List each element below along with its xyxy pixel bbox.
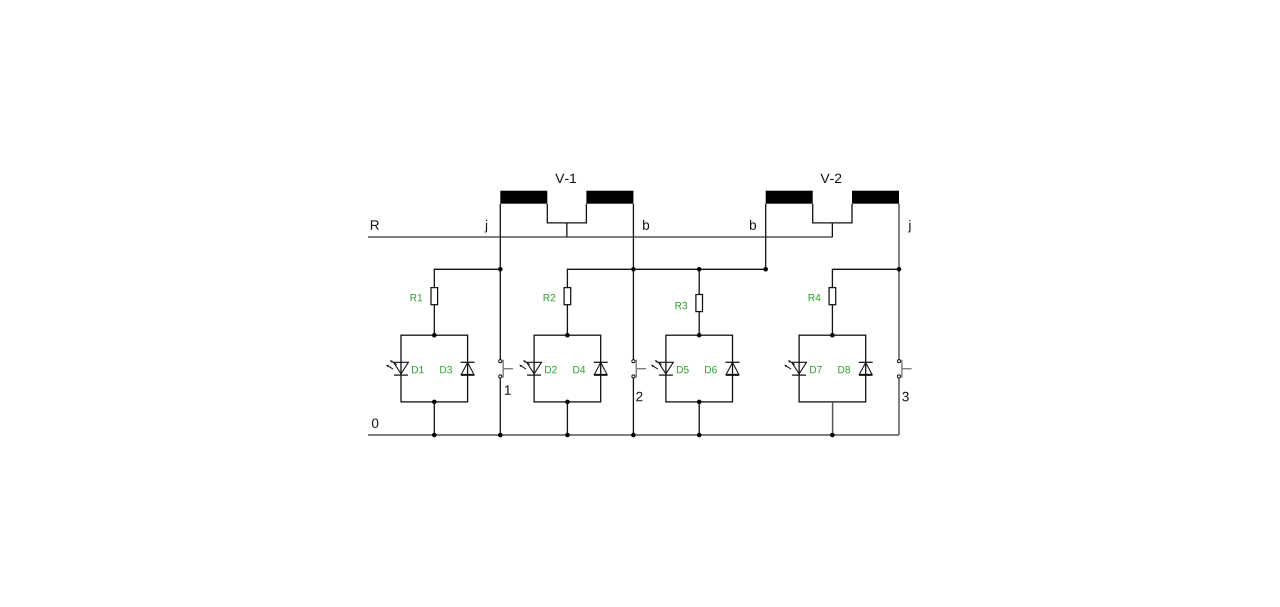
resistor R2 xyxy=(564,288,571,305)
LED D7 xyxy=(784,360,806,375)
label V-2 xyxy=(820,174,841,183)
node box top cell1 xyxy=(432,333,437,338)
node 0 bus cell1 xyxy=(432,433,437,438)
transformer V-1 left plate xyxy=(500,191,547,204)
diode D3 xyxy=(461,362,475,375)
wire leg j2 upper xyxy=(898,204,900,360)
wire branch cell2 xyxy=(567,269,633,287)
label switch 2 xyxy=(636,392,642,401)
node 0 bus cell3 xyxy=(697,433,702,438)
transformer V-2 left plate xyxy=(766,191,813,204)
label D1 xyxy=(412,366,424,373)
label R2 xyxy=(544,294,556,301)
node junction leg3 xyxy=(763,267,768,272)
wire leg j1 lower xyxy=(499,378,501,435)
label D6 xyxy=(705,366,717,374)
transformer V-1 right plate xyxy=(586,191,633,204)
node box bottom cell3 xyxy=(697,400,702,405)
transformer V-1 center tap xyxy=(547,204,586,237)
label switch 1 xyxy=(505,385,511,394)
diode D8 xyxy=(859,362,873,375)
box cell1 xyxy=(401,335,468,402)
label D3 xyxy=(440,366,452,374)
wire box to 0 bus cell4 xyxy=(832,402,834,435)
box cell4 xyxy=(799,335,866,402)
LED D1 xyxy=(386,360,408,375)
wire R2 to box cell2 xyxy=(566,305,568,336)
label R1 xyxy=(411,294,423,301)
resistor R3 xyxy=(696,295,703,312)
wire leg b1 lower xyxy=(632,378,634,435)
wire box to 0 bus cell3 xyxy=(698,402,700,435)
node branch tap R3 xyxy=(697,267,702,272)
node box top cell4 xyxy=(830,333,835,338)
label D7 xyxy=(810,366,822,373)
wire branch cell3 xyxy=(633,269,765,294)
transformer V-2 right plate xyxy=(852,191,899,204)
node box bottom cell1 xyxy=(432,400,437,405)
label switch 3 xyxy=(902,392,908,402)
wire 0 bus (net 0) xyxy=(368,434,899,436)
label net 0 xyxy=(372,418,378,428)
label D8 xyxy=(838,366,850,374)
label node b (V-1 right) xyxy=(643,220,649,230)
wire leg b1 upper xyxy=(632,204,634,360)
label node j (V-2 right) xyxy=(908,220,910,233)
box cell2 xyxy=(534,335,601,402)
resistor R4 xyxy=(829,288,836,305)
label R3 xyxy=(675,302,687,310)
label R4 xyxy=(809,294,821,301)
resistor R1 xyxy=(431,288,438,305)
node box top cell2 xyxy=(565,333,570,338)
node box bottom cell2 xyxy=(565,400,570,405)
LED D5 xyxy=(651,360,673,375)
diode D6 xyxy=(726,362,740,375)
label D5 xyxy=(677,366,689,373)
label node b (V-2 left) xyxy=(750,220,756,230)
wire branch cell4 xyxy=(832,269,899,287)
wire R bus (net R) xyxy=(368,236,832,238)
wire box to 0 bus cell1 xyxy=(433,402,435,435)
wire leg j2 lower xyxy=(898,378,900,435)
node 0 bus leg j1 xyxy=(498,433,503,438)
wire leg j1 upper xyxy=(499,204,501,360)
node box top cell3 xyxy=(697,333,702,338)
label net R xyxy=(371,220,379,229)
wire R3 to box cell3 xyxy=(698,312,700,336)
node 0 bus cell2 xyxy=(565,433,570,438)
node junction leg2 xyxy=(631,267,636,272)
label D4 xyxy=(573,366,585,373)
switch S1 xyxy=(499,360,513,378)
diode D4 xyxy=(594,362,608,375)
switch S2 xyxy=(632,360,646,378)
node 0 bus leg b1 xyxy=(631,433,636,438)
label node j (V-1 left) xyxy=(485,220,487,233)
label V-1 xyxy=(555,174,576,183)
wire branch cell1 xyxy=(434,269,500,287)
switch S3 xyxy=(897,360,911,378)
node junction leg4 xyxy=(897,267,902,272)
wire box to 0 bus cell2 xyxy=(566,402,568,435)
wire R4 to box cell4 xyxy=(831,305,833,336)
LED D2 xyxy=(519,360,541,375)
label D2 xyxy=(545,366,557,373)
wire R1 to box cell1 xyxy=(433,305,435,336)
wire leg b2 xyxy=(765,204,767,270)
node junction leg1 xyxy=(498,267,503,272)
box cell3 xyxy=(666,335,733,402)
transformer V-2 center tap xyxy=(813,204,852,237)
node 0 bus cell4 xyxy=(830,433,835,438)
